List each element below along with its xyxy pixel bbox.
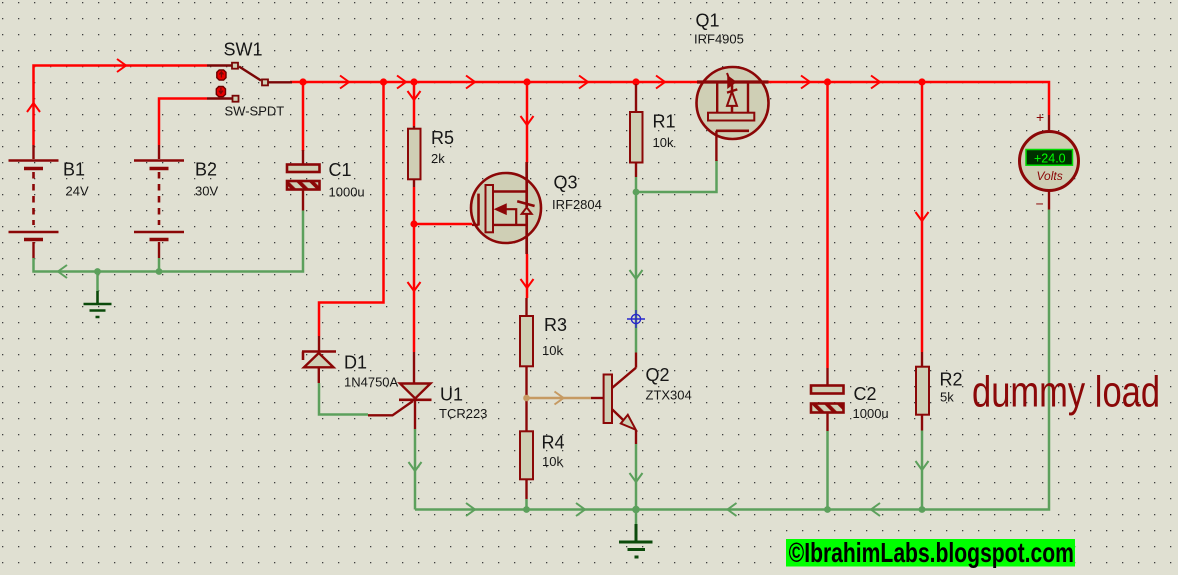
node B2 bus dot — [156, 268, 163, 275]
wire bottom-left green bus — [34, 211, 304, 272]
node R4 bus dot — [523, 506, 530, 513]
svg-text:B1: B1 — [63, 160, 85, 180]
svg-text:SW-SPDT: SW-SPDT — [225, 104, 285, 119]
svg-text:C2: C2 — [854, 384, 877, 404]
wire R5 to U1 anode — [413, 187, 416, 352]
svg-text:R5: R5 — [431, 128, 454, 148]
wire D1 to U1 gate green — [319, 383, 368, 415]
svg-text:Q2: Q2 — [646, 365, 670, 385]
wire R2 drop from rail — [921, 82, 924, 352]
wire bottom ground bus — [415, 210, 1049, 510]
wire arrow down Q3 drain — [521, 116, 534, 125]
svg-text:TCR223: TCR223 — [439, 406, 487, 421]
resistor R2 — [916, 352, 929, 431]
svg-text:R4: R4 — [542, 433, 565, 453]
wire arrow left on bottom-left bus — [58, 265, 67, 278]
watermark bar — [786, 539, 1075, 567]
node C2 bus dot — [824, 506, 831, 513]
svg-text:10k: 10k — [542, 343, 563, 358]
resistor R5 — [408, 126, 421, 187]
wire arrow down R2 bottom — [916, 461, 929, 470]
svg-text:2k: 2k — [431, 151, 445, 166]
svg-text:SW1: SW1 — [224, 40, 263, 60]
svg-text:1000u: 1000u — [853, 406, 889, 421]
wire C1 drop — [302, 82, 305, 151]
svg-text:dummy load: dummy load — [972, 368, 1160, 417]
svg-text:5k: 5k — [940, 390, 954, 405]
svg-text:1000u: 1000u — [329, 185, 365, 200]
resistor R4 — [520, 398, 533, 499]
svg-text:10k: 10k — [542, 454, 563, 469]
wire Q1 gate net green — [636, 160, 717, 192]
svg-text:R1: R1 — [653, 112, 676, 132]
wire arrow down R5-U1 — [408, 282, 421, 291]
MOSFET Q1 IRF4905 — [697, 67, 769, 161]
wire arrow down Q2 emitter — [630, 473, 643, 482]
wire R1 bottom green to node — [635, 177, 638, 192]
wire arrow right tan — [555, 392, 564, 405]
wire B2 bottom green — [158, 258, 161, 272]
switch SW1 toggle button up — [217, 70, 226, 80]
svg-text:R2: R2 — [940, 370, 963, 390]
resistor R3 — [520, 298, 533, 398]
svg-text:C1: C1 — [329, 160, 352, 180]
svg-text:B2: B2 — [195, 160, 217, 180]
wire R5 drop from rail — [413, 82, 416, 126]
svg-text:30V: 30V — [195, 184, 218, 199]
battery B2 — [134, 145, 184, 258]
svg-text:IRF4905: IRF4905 — [694, 32, 744, 47]
wire C2 drop from rail — [826, 82, 829, 368]
voltmeter — [1020, 115, 1079, 210]
node origin marker (blue target) — [627, 310, 645, 328]
voltmeter LCD — [1026, 150, 1073, 166]
ground symbol bottom — [635, 510, 638, 525]
svg-text:Q1: Q1 — [696, 11, 720, 31]
wire rail arrows — [340, 76, 880, 89]
svg-text:−: − — [1036, 196, 1044, 212]
wire Q3 source to R3 — [526, 254, 529, 298]
wire arrow up on B1 feed — [27, 103, 40, 112]
svg-text:D1: D1 — [344, 353, 367, 373]
wire C2 bottom green — [826, 431, 829, 510]
wire main rail from switch to voltmeter corner — [290, 82, 1049, 115]
switch SW1 toggle button down — [216, 87, 225, 97]
svg-text:Volts: Volts — [1037, 169, 1063, 183]
svg-text:R3: R3 — [544, 315, 567, 335]
node Q1 gate / R1 / Q2 collector — [633, 189, 640, 196]
wire R4 bottom green — [525, 499, 528, 510]
wire arrow down R2 drop — [916, 212, 929, 221]
resistor R1 — [630, 84, 643, 177]
svg-text:IRF2804: IRF2804 — [552, 197, 602, 212]
wire arrow down on R5 drop — [408, 91, 421, 100]
node R3/R4/base junction — [523, 395, 530, 402]
wire Q2 emitter green to bus — [635, 444, 638, 510]
node main ground dot — [632, 506, 640, 514]
wire R2 bottom green — [921, 431, 924, 510]
wire Q2 base tan — [527, 397, 592, 400]
svg-text:10k: 10k — [653, 135, 674, 150]
svg-text:+: + — [1036, 109, 1044, 125]
wire Q3 drain to rail — [526, 82, 529, 163]
wire Q2 collector green — [635, 192, 638, 353]
wire arrows on ground bus — [466, 503, 585, 516]
MOSFET Q3 IRF2804 — [471, 162, 541, 254]
switch SW1 — [207, 63, 292, 102]
wire arrow down Q2 collector — [630, 270, 643, 279]
svg-text:©IbrahimLabs.blogspot.com: ©IbrahimLabs.blogspot.com — [789, 538, 1074, 568]
battery B1 — [9, 145, 59, 258]
diode D1 (zener 1N4750A) — [302, 336, 336, 383]
wire B1 top to SW1 — [34, 66, 208, 146]
svg-text:U1: U1 — [440, 385, 463, 405]
node R2 bus dot — [919, 506, 926, 513]
wire Q3 gate feed — [414, 223, 472, 226]
node ground tap dot — [94, 268, 101, 275]
capacitor C1 — [287, 150, 320, 211]
wire arrow down U1 drop — [409, 462, 422, 471]
svg-text:+24.0: +24.0 — [1034, 151, 1066, 165]
svg-text:24V: 24V — [66, 184, 89, 199]
wire arrow down Q3 source — [521, 279, 534, 288]
node R5/Q3 gate junction — [410, 220, 417, 227]
junction dots on rail — [299, 78, 925, 227]
svg-text:1N4750A: 1N4750A — [344, 375, 399, 390]
wire arrow right on top-left rail — [117, 59, 126, 72]
capacitor C2 — [811, 368, 844, 431]
svg-text:ZTX304: ZTX304 — [646, 388, 692, 403]
ground symbol left — [96, 272, 99, 292]
svg-text:Q3: Q3 — [554, 173, 578, 193]
transistor Q2 ZTX304 — [591, 353, 636, 445]
wire B2 top to SW1 throw 2 — [159, 99, 207, 146]
wire D1 feed from rail — [319, 82, 384, 336]
SCR U1 TCR223 — [368, 352, 432, 429]
wire U1 cathode green drop — [414, 429, 417, 510]
